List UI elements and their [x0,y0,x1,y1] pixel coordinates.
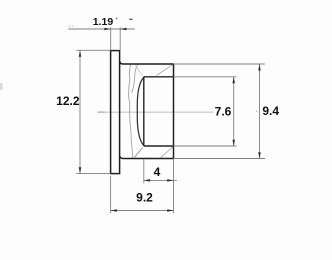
svg-text:4: 4 [154,165,161,179]
svg-text:9.4: 9.4 [262,104,279,118]
svg-text:7.6: 7.6 [215,105,232,119]
svg-text:1.19: 1.19 [93,16,114,28]
svg-text:12.2: 12.2 [56,94,80,108]
svg-text:9.2: 9.2 [136,190,153,204]
